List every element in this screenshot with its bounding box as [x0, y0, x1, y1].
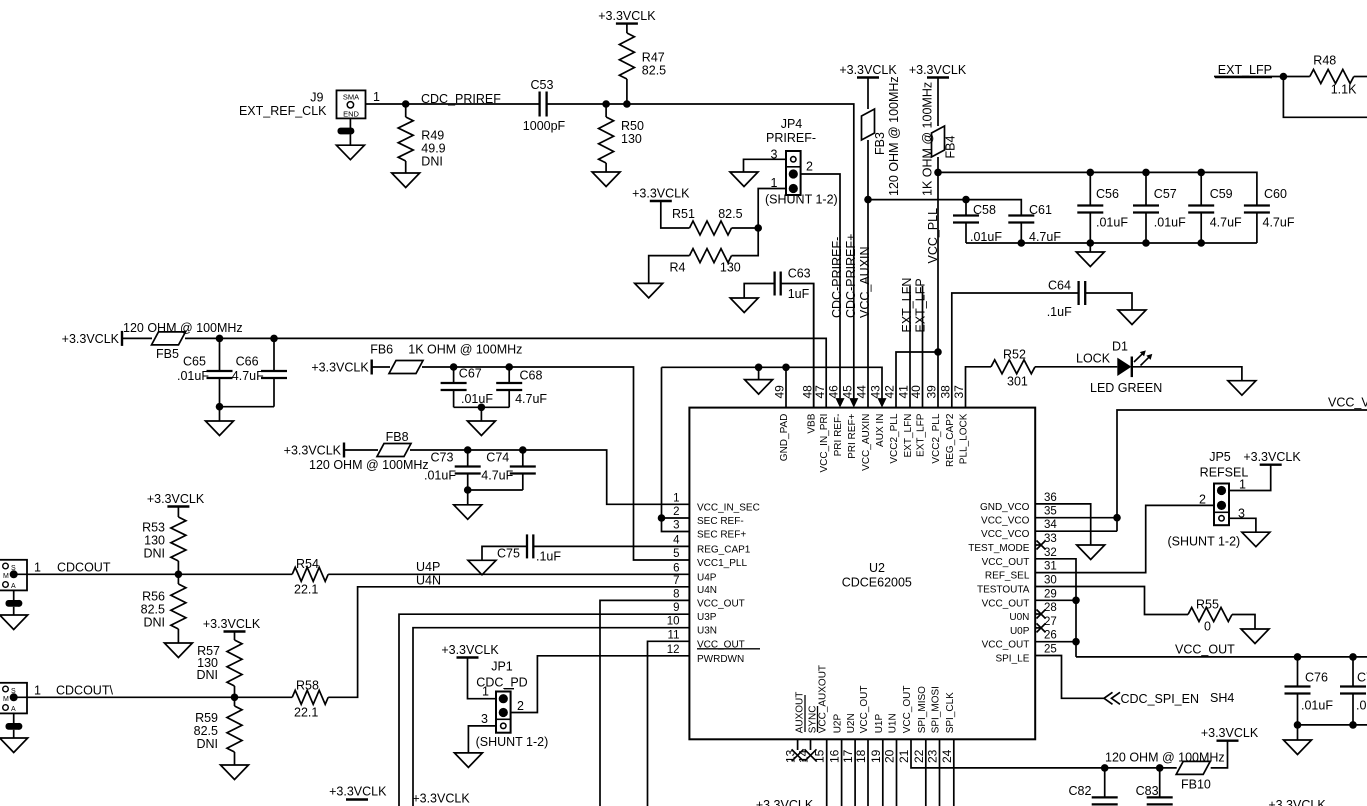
junction C68	[505, 363, 513, 371]
junction pin 35	[1113, 514, 1121, 522]
junction C56 bottom	[1087, 239, 1095, 247]
resistor R48 1.1K	[1283, 54, 1367, 97]
svg-text:FB8: FB8	[386, 430, 409, 444]
node R51/R4/JP4-1	[754, 224, 762, 232]
net label EXT_LFN (rotated)	[900, 278, 914, 333]
svg-text:C68: C68	[520, 369, 543, 383]
svg-text:40: 40	[909, 385, 923, 399]
wire U3P pin 9	[399, 614, 689, 806]
svg-text:VCC1_PLL: VCC1_PLL	[697, 558, 747, 569]
svg-text:16: 16	[828, 749, 842, 763]
svg-text:R56: R56	[142, 590, 165, 604]
connector shield stub 2	[6, 713, 23, 738]
junction CDCOUT-bar/R57/R59	[231, 694, 239, 702]
junction C59 top	[1197, 169, 1205, 177]
wire R58 to pin 7 (U4N)	[328, 587, 689, 698]
net label LOCK	[1076, 352, 1111, 366]
svg-text:120 OHM @ 100MHz: 120 OHM @ 100MHz	[887, 76, 901, 196]
capacitor C53 1000pF	[523, 78, 566, 133]
svg-text:JP4: JP4	[781, 117, 803, 131]
wire pin 36 GND_VCO	[1035, 504, 1091, 545]
svg-text:82.5: 82.5	[718, 207, 742, 221]
junction C83	[1156, 764, 1164, 772]
svg-text:CDCOUT\: CDCOUT\	[56, 684, 113, 698]
resistor R51 82.5	[661, 201, 758, 235]
wire pin 31 REF_SEL to JP5	[1035, 505, 1214, 572]
junction VCC_PLL/pin42	[934, 348, 942, 356]
ferrite bead FB8 120 OHM @ 100MHz	[309, 430, 429, 472]
capacitor C63 1uF	[730, 267, 814, 408]
wire C67/C68 bottoms	[454, 404, 510, 422]
power +3.3VCLK (bottom right, cut)	[1268, 798, 1326, 806]
wire R54 to pin 6 (U4P)	[328, 573, 689, 575]
svg-text:2: 2	[806, 160, 813, 174]
svg-text:.01uF: .01uF	[1356, 699, 1367, 713]
svg-text:C65: C65	[183, 355, 206, 369]
svg-text:TESTOUTA: TESTOUTA	[977, 585, 1030, 596]
wire pin 42 VCC2_PLL	[896, 352, 938, 408]
ground (cap rail)	[1076, 252, 1104, 267]
resistor R56 82.5 DNI	[141, 574, 186, 643]
capacitor C60 4.7uF	[1244, 187, 1295, 243]
svg-text:A: A	[11, 706, 16, 713]
svg-text:FB4: FB4	[944, 136, 958, 159]
svg-text:10: 10	[667, 616, 680, 628]
junction pin2	[658, 514, 666, 522]
svg-text:.01uF: .01uF	[1154, 216, 1186, 230]
junction C77 top	[1349, 653, 1357, 661]
svg-text:SEC REF-: SEC REF-	[697, 516, 744, 527]
resistor R47 82.5	[619, 24, 666, 104]
svg-text:U4N: U4N	[697, 585, 717, 596]
wire VCC_OUT rail	[1076, 656, 1367, 658]
svg-text:6: 6	[673, 562, 679, 574]
svg-text:49.9: 49.9	[421, 142, 445, 156]
svg-text:13: 13	[784, 749, 798, 763]
svg-text:130: 130	[144, 534, 165, 548]
svg-text:120 OHM @ 100MHz: 120 OHM @ 100MHz	[309, 458, 429, 472]
svg-text:FB10: FB10	[1181, 778, 1211, 792]
ground (C76)	[1284, 740, 1312, 755]
svg-text:R55: R55	[1196, 598, 1219, 612]
wire C73/C74 bottoms	[464, 486, 523, 505]
capacitor C75 .1uF	[468, 534, 689, 574]
power +3.3VCLK (bottom left)	[329, 785, 387, 800]
wire pin 34	[1035, 530, 1117, 532]
svg-text:82.5: 82.5	[642, 64, 666, 78]
wire gnd stem C76	[1297, 725, 1299, 740]
junction C61 bottom	[1018, 239, 1026, 247]
svg-text:R51: R51	[672, 207, 695, 221]
junction CDCOUT/R53/R56	[175, 571, 183, 579]
svg-text:82.5: 82.5	[194, 724, 218, 738]
svg-text:D1: D1	[1112, 340, 1128, 354]
junction C74	[519, 446, 527, 454]
pin numbers and names (top, 49-37)	[773, 385, 970, 473]
svg-text:42: 42	[883, 385, 897, 399]
svg-text:+3.3VCLK: +3.3VCLK	[909, 63, 967, 77]
svg-text:.01uF: .01uF	[1096, 216, 1128, 230]
svg-text:C82: C82	[1069, 784, 1092, 798]
off-page arrow CDC_SPI_EN SH4	[1104, 691, 1234, 706]
power +3.3VCLK (R53)	[147, 492, 205, 507]
svg-text:22.1: 22.1	[294, 706, 318, 720]
svg-text:DNI: DNI	[421, 155, 443, 169]
net label U4P	[416, 560, 440, 574]
svg-text:37: 37	[952, 385, 966, 399]
svg-text:1K OHM @ 100MHz: 1K OHM @ 100MHz	[408, 343, 522, 357]
svg-text:PRI REF-: PRI REF-	[833, 414, 844, 457]
connector (CDCOUT SMA)	[0, 560, 41, 591]
svg-text:CDCOUT: CDCOUT	[57, 561, 111, 575]
svg-text:AUX IN: AUX IN	[875, 414, 886, 447]
wire VCC_PLL cap rail top	[938, 172, 1257, 205]
svg-text:A: A	[11, 583, 16, 590]
svg-text:+3.3VCLK: +3.3VCLK	[203, 617, 261, 631]
svg-text:34: 34	[1044, 519, 1057, 531]
svg-text:36: 36	[1044, 492, 1057, 504]
svg-text:CDC-PRIREF-: CDC-PRIREF-	[830, 237, 844, 318]
wire gnd stem	[758, 367, 760, 379]
svg-text:.1uF: .1uF	[1047, 305, 1072, 319]
svg-text:39: 39	[925, 385, 939, 399]
wire JP1 pin1	[468, 658, 497, 699]
svg-text:120 OHM @ 100MHz: 120 OHM @ 100MHz	[123, 321, 243, 335]
svg-text:REF_SEL: REF_SEL	[985, 571, 1030, 582]
svg-text:TEST_MODE: TEST_MODE	[968, 543, 1029, 554]
svg-text:46: 46	[827, 385, 841, 399]
svg-text:U1N: U1N	[888, 713, 899, 733]
wire VCC_OUT feed pin 11	[648, 641, 690, 806]
svg-text:(SHUNT 1-2): (SHUNT 1-2)	[1168, 535, 1241, 549]
X mark pin 27 U0P	[1035, 623, 1045, 632]
svg-text:4.7uF: 4.7uF	[515, 392, 547, 406]
junction at R47	[623, 100, 631, 108]
capacitor C73 .01uF	[424, 450, 481, 490]
svg-text:GND_PAD: GND_PAD	[779, 414, 790, 462]
wire CDCOUT-bar	[14, 696, 293, 698]
svg-text:CDCE62005: CDCE62005	[842, 576, 912, 590]
ground (JP1)	[454, 753, 482, 768]
pin numbers and names (bottom, 13-24)	[784, 665, 956, 763]
svg-text:9: 9	[673, 602, 679, 614]
svg-text:VCC_AUXIN: VCC_AUXIN	[861, 414, 872, 471]
svg-text:U3N: U3N	[697, 626, 717, 637]
pin numbers and names (left, 1-12)	[667, 492, 760, 665]
resistor R4 130	[649, 228, 759, 283]
svg-text:+3.3VCLK: +3.3VCLK	[1201, 726, 1259, 740]
svg-text:VCC_AUXOUT: VCC_AUXOUT	[818, 665, 829, 733]
svg-text:.01uF: .01uF	[177, 369, 209, 383]
wire J9 shield stub	[349, 118, 351, 128]
junction gnd rail	[755, 364, 763, 372]
svg-text:1: 1	[34, 561, 41, 575]
svg-text:DNI: DNI	[143, 547, 165, 561]
svg-text:27: 27	[1044, 616, 1057, 628]
X mark pin 14 SYNC	[805, 739, 817, 761]
connector J9 (SMA, EXT_REF_CLK)	[239, 90, 380, 119]
net label CDC-PRIREF- (rotated)	[830, 237, 844, 318]
arrow into pin 46	[836, 398, 845, 408]
junction C65	[216, 335, 224, 343]
wire JP4 pin3 to ground	[744, 159, 787, 172]
svg-text:+3.3VCLK: +3.3VCLK	[62, 332, 120, 346]
svg-text:1.1K: 1.1K	[1331, 83, 1357, 97]
svg-text:.01uF: .01uF	[1301, 699, 1333, 713]
wire pin 49 GND_PAD	[785, 367, 787, 407]
wire FB5 rail to pin 47	[185, 338, 826, 407]
capacitor C56 .01uF	[1077, 172, 1128, 243]
svg-text:26: 26	[1044, 630, 1057, 642]
svg-text:+3.3VCLK: +3.3VCLK	[839, 63, 897, 77]
arrow into pin 43	[878, 398, 887, 408]
ground (rail)	[745, 380, 773, 395]
svg-text:+3.3VCLK: +3.3VCLK	[1243, 450, 1301, 464]
junction pin 29	[1072, 597, 1080, 605]
wire C58 rail	[868, 200, 1021, 216]
connector shield stub	[6, 590, 23, 615]
svg-text:EXT_REF_CLK: EXT_REF_CLK	[239, 104, 327, 118]
label (SHUNT 1-2) JP5	[1168, 535, 1241, 549]
svg-text:33: 33	[1044, 533, 1057, 545]
svg-text:35: 35	[1044, 506, 1057, 518]
svg-text:C56: C56	[1096, 187, 1119, 201]
junction C56 top	[1087, 169, 1095, 177]
resistor R55 0	[1188, 598, 1255, 634]
ground (LED)	[1228, 381, 1256, 396]
svg-text:38: 38	[938, 385, 952, 399]
wire EXT_LFP branch	[1283, 77, 1367, 118]
capacitor C66 4.7uF	[232, 338, 287, 406]
label (SHUNT 1-2) JP1	[476, 735, 549, 749]
capacitor C68 4.7uF	[496, 367, 547, 407]
svg-text:JP5: JP5	[1209, 450, 1231, 464]
capacitor C74 4.7uF	[481, 450, 536, 490]
svg-text:DNI: DNI	[196, 737, 218, 751]
svg-text:25: 25	[1044, 644, 1057, 656]
svg-text:VBB: VBB	[807, 413, 818, 433]
svg-text:1000pF: 1000pF	[523, 119, 566, 133]
svg-text:1: 1	[482, 685, 489, 699]
svg-text:U4N: U4N	[416, 574, 441, 588]
svg-text:49: 49	[773, 385, 787, 399]
svg-text:C77: C77	[1357, 671, 1367, 685]
junction C57 bottom	[1142, 239, 1150, 247]
svg-text:VCC_AUXIN: VCC_AUXIN	[858, 246, 872, 318]
svg-text:+3.3VCLK: +3.3VCLK	[329, 785, 387, 799]
svg-text:45: 45	[840, 385, 854, 399]
svg-text:C61: C61	[1029, 203, 1052, 217]
jumper JP5 REFSEL	[1199, 450, 1248, 525]
svg-text:VCC2_PLL: VCC2_PLL	[889, 413, 900, 463]
svg-text:17: 17	[841, 749, 855, 763]
svg-text:CDC_SPI_EN: CDC_SPI_EN	[1121, 692, 1200, 706]
svg-text:R47: R47	[642, 51, 665, 65]
wire pin 41 EXT_LFN	[909, 286, 911, 408]
power +3.3VCLK (R57)	[203, 617, 261, 632]
wire JP1 pin3 to ground	[468, 726, 496, 753]
svg-text:EXT_LFP: EXT_LFP	[916, 413, 927, 457]
svg-text:R59: R59	[195, 711, 218, 725]
svg-text:VCC_OUT: VCC_OUT	[902, 686, 913, 734]
svg-text:4.7uF: 4.7uF	[232, 369, 264, 383]
junction C57 top	[1142, 169, 1150, 177]
wire gnd stem caps	[1089, 243, 1091, 252]
svg-text:C63: C63	[788, 267, 811, 281]
power +3.3VCLK (below pin 14, cut)	[756, 798, 814, 806]
svg-text:J9: J9	[310, 91, 323, 105]
svg-text:.01uF: .01uF	[970, 230, 1002, 244]
svg-text:R49: R49	[421, 129, 444, 143]
wire EXT_LFP	[1214, 76, 1283, 78]
svg-text:VCC_OUT: VCC_OUT	[982, 640, 1030, 651]
ground (J9 shield)	[336, 145, 364, 160]
wire JP4 pin2 down to pin 46 (CDC-PRIREF-)	[801, 174, 840, 400]
svg-text:1uF: 1uF	[788, 287, 810, 301]
net label VCC_OUT	[1175, 643, 1235, 657]
ground (R59)	[221, 765, 249, 780]
svg-text:1: 1	[1239, 478, 1246, 492]
capacitor C83	[1136, 768, 1173, 805]
jumper JP1 CDC_PD	[476, 660, 527, 733]
junction C59 bottom	[1197, 239, 1205, 247]
wire JP5 pin3 to ground	[1229, 518, 1256, 532]
svg-text:2: 2	[517, 699, 524, 713]
svg-text:EXT_LFP: EXT_LFP	[1218, 63, 1272, 77]
svg-text:47: 47	[813, 385, 827, 399]
svg-text:VCC_OUT: VCC_OUT	[982, 598, 1030, 609]
svg-text:FB3: FB3	[873, 132, 887, 155]
svg-text:VCC_OUT: VCC_OUT	[1175, 643, 1235, 657]
wire pin 38 REG_CAP2 to C64	[952, 293, 1079, 408]
svg-text:C64: C64	[1048, 279, 1071, 293]
svg-text:(SHUNT 1-2): (SHUNT 1-2)	[476, 735, 549, 749]
svg-text:29: 29	[1044, 588, 1057, 600]
wire SEC REF vertical	[662, 367, 690, 531]
svg-text:R50: R50	[621, 119, 644, 133]
svg-text:M: M	[3, 696, 9, 703]
wire pin 26	[1035, 641, 1076, 643]
wire FB10 to pin 22	[911, 739, 1177, 768]
junction C58 top	[962, 196, 970, 204]
svg-text:4.7uF: 4.7uF	[481, 469, 513, 483]
ferrite bead FB4 (1K OHM @ 100MHz) VCC_PLL	[909, 63, 967, 408]
resistor R53 130 DNI	[142, 507, 186, 575]
svg-text:END: END	[343, 110, 359, 119]
wire pin 40 EXT_LFP	[922, 286, 924, 408]
svg-text:C74: C74	[486, 451, 509, 465]
svg-text:REG_CAP1: REG_CAP1	[697, 544, 751, 555]
ground (CDCOUT conn)	[0, 615, 28, 630]
svg-text:GND_VCO: GND_VCO	[980, 502, 1030, 513]
svg-text:4.7uF: 4.7uF	[1210, 216, 1242, 230]
svg-text:2: 2	[673, 506, 679, 518]
ground (CDCOUT-bar conn)	[0, 738, 28, 753]
junction C82	[1101, 764, 1109, 772]
wire pin 2	[662, 517, 690, 519]
net label VCC_AUXIN (rotated)	[858, 246, 872, 318]
svg-text:VCC_VCO: VCC_VCO	[981, 529, 1030, 540]
wire FB10 rail	[1211, 741, 1228, 768]
wire VCC_OUT feed pin 8	[600, 600, 689, 806]
ground (JP5)	[1242, 532, 1270, 547]
svg-text:120 OHM @ 100MHz: 120 OHM @ 100MHz	[1105, 751, 1225, 765]
svg-text:SPI_LE: SPI_LE	[995, 654, 1029, 665]
net label EXT_LFP (top right)	[1215, 63, 1272, 78]
ground (C64)	[1118, 310, 1146, 325]
wire J9 pin1 to node	[366, 103, 406, 105]
capacitor C67 .01uF	[441, 367, 494, 408]
capacitor C57 .01uF	[1133, 172, 1186, 243]
svg-text:1: 1	[673, 492, 679, 504]
wire U3N pin 10	[413, 628, 689, 806]
X mark pin 28 U0N	[1035, 610, 1045, 619]
svg-text:VCC_VCO: VCC_VCO	[1328, 396, 1367, 410]
wire CDC_PRIREF to C53	[406, 103, 540, 105]
wire pin 35	[1035, 517, 1117, 519]
junction C77 bottom	[1349, 721, 1357, 729]
svg-text:C58: C58	[973, 203, 996, 217]
svg-text:U1P: U1P	[874, 714, 885, 734]
power +3.3VCLK (JP1)	[441, 643, 499, 658]
svg-text:VCC_VCO: VCC_VCO	[981, 516, 1030, 527]
svg-text:FB5: FB5	[156, 347, 179, 361]
resistor R50 130	[599, 104, 644, 172]
svg-text:11: 11	[668, 629, 680, 641]
capacitor C76 .01uF	[1285, 657, 1334, 725]
svg-text:VCC_OUT: VCC_OUT	[859, 686, 870, 734]
resistor R49 49.9 DNI	[398, 104, 445, 173]
svg-text:12: 12	[667, 644, 680, 656]
svg-text:PLL_LOCK: PLL_LOCK	[959, 413, 970, 464]
net label U4N	[416, 574, 441, 588]
resistor R57 130 DNI	[196, 632, 242, 698]
wire C65/C66 bottoms	[216, 403, 274, 421]
ferrite blob under J9	[338, 128, 355, 146]
svg-text:1K OHM @ 100MHz: 1K OHM @ 100MHz	[921, 82, 935, 196]
power +3.3VCLK (R51)	[632, 187, 690, 202]
ground (R49)	[392, 173, 420, 188]
svg-text:C53: C53	[531, 78, 554, 92]
junction pin49	[782, 364, 790, 372]
wire FB8 rail to pin 1	[410, 450, 689, 504]
svg-text:R4: R4	[670, 261, 686, 275]
ferrite bead FB6 1K OHM @ 100MHz	[370, 343, 522, 374]
junction C76 top	[1294, 653, 1302, 661]
svg-text:30: 30	[1044, 575, 1057, 587]
junction C73	[464, 446, 472, 454]
svg-text:301: 301	[1007, 375, 1028, 389]
wire pin 30 TESTOUTA to R55	[1035, 587, 1188, 615]
svg-text:VCC2_PLL: VCC2_PLL	[931, 413, 942, 463]
capacitor C64 .1uF	[1047, 279, 1132, 320]
ground (R4)	[635, 283, 663, 298]
LED D1 LED GREEN	[1090, 340, 1162, 396]
svg-text:SPI_MISO: SPI_MISO	[917, 686, 928, 733]
svg-text:R58: R58	[296, 679, 319, 693]
svg-text:+3.3VCLK: +3.3VCLK	[441, 643, 499, 657]
svg-text:R48: R48	[1313, 54, 1336, 68]
svg-text:1: 1	[34, 684, 41, 698]
power +3.3VCLK (JP5)	[1243, 450, 1301, 465]
wires bottom pins 15-20,22,23,24 (off-page)	[827, 739, 954, 806]
svg-text:+3.3VCLK: +3.3VCLK	[632, 187, 690, 201]
svg-text:C57: C57	[1154, 187, 1177, 201]
svg-text:R54: R54	[296, 557, 319, 571]
svg-text:22.1: 22.1	[294, 583, 318, 597]
ground (JP4 pin3)	[730, 172, 758, 187]
svg-text:U2P: U2P	[833, 714, 844, 734]
